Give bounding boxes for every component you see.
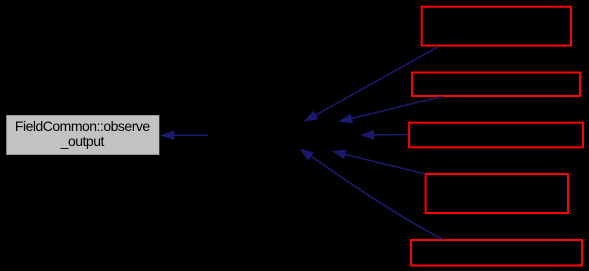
node caller box 4 (red, truncated) (426, 174, 568, 213)
node caller box 3 (red, truncated) (409, 123, 583, 148)
node FieldCommon::observe_output (root, grey) (6, 115, 159, 155)
wire edge from box 4 (332, 150, 425, 174)
svg-text:FieldCommon::observe: FieldCommon::observe (15, 118, 150, 134)
wire edge to root node (160, 130, 208, 140)
node caller box 5 (red, truncated) (411, 240, 582, 266)
node caller box 2 (red, truncated) (412, 73, 580, 97)
wire edge from box 2 (338, 97, 442, 124)
wire edge from box 1 (304, 47, 439, 122)
node caller box 1 (red, truncated) (422, 7, 571, 46)
wire edge from box 3 (360, 130, 408, 140)
wire edge from box 5 (curved) (300, 149, 444, 240)
svg-text:_output: _output (60, 133, 105, 149)
